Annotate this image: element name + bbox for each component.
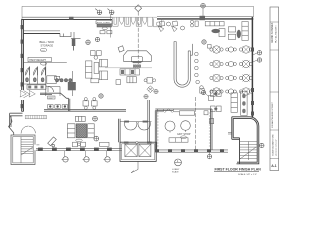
column on top wall [200,16,206,20]
long sofa top right [205,22,248,41]
section line south [195,97,197,150]
exterior wall right [251,17,254,118]
counter below wall [27,85,46,89]
south storefront wall left [36,148,122,151]
chamfer wall bottom-left [9,116,14,135]
svg-text:SCALE: 1/8" = 1'-0": SCALE: 1/8" = 1'-0" [238,173,257,176]
door triangle 2 [34,67,38,75]
finish tag 3 [104,151,111,162]
svg-text:SCALE: SCALE [172,170,179,173]
concierge label bubble [48,96,56,99]
title block vertical text [271,22,277,156]
vestibule wall west [119,119,121,143]
corridor wall at gift shop west [148,100,150,142]
row 4 [210,88,223,95]
gift shop south shelf [169,138,188,142]
door triangle 1 [26,67,30,75]
keynote top right of desk [93,116,98,121]
wc fixtures in stalls [26,78,29,82]
registration desk label bubble [76,139,83,142]
svg-text:A-1: A-1 [271,164,277,168]
lavatory circles [55,79,58,82]
grid bubble A [95,9,102,15]
writing desks pair [83,98,97,110]
doors into restroom corridor [20,90,35,97]
concierge desk row [48,105,68,109]
keynote south wall right [207,152,211,159]
title block [270,7,279,171]
service elevator shaft [120,142,156,162]
stair treads bottom right [240,142,258,161]
restroom walls [23,71,72,84]
svg-text:FIRST FLOOR FINISH PLAN: FIRST FLOOR FINISH PLAN [215,167,262,171]
plan callout bubble [172,159,181,174]
leader arrow below elevators [131,161,138,172]
canopy line top [22,6,254,19]
registration desk group [67,116,94,137]
stair door opening [34,145,40,151]
storage room top corridor wall [23,30,60,32]
top wall right section [157,16,253,20]
finish tag 2 [83,151,90,162]
grid bubble C [201,3,206,17]
bar counter J [174,42,192,88]
reception desk [118,46,151,68]
small service station [190,20,198,27]
sheet number [271,164,277,168]
svg-text:DESIGN GROUP: DESIGN GROUP [276,138,278,156]
storefront wall top-left [22,17,112,20]
svg-text:GRAND SCHEMES: GRAND SCHEMES [271,22,274,43]
piano [48,137,57,147]
elevator bank head line [112,16,157,18]
gift shop curtain wavy entry [158,109,180,113]
grid bubble B [108,9,115,15]
entry tile band [25,115,46,118]
gift shop display tables [165,121,175,131]
stairwell bottom-left [11,135,35,165]
svg-text:GIFT SHOP: GIFT SHOP [177,133,191,136]
elevator lobby label and desk [96,15,112,38]
dining tables grid [210,46,253,95]
left counter [67,124,75,138]
columns on right wall lower [251,101,254,116]
walls south lobby left [10,93,126,127]
row 2 [210,60,223,67]
keynote left of stair room [228,133,232,135]
vestibule north wall and door arcs [120,121,151,130]
room label BELL/SKID STORAGE [40,40,55,52]
keynote bottom right of desk [94,136,99,141]
pair chairs [228,27,235,32]
lobby seating group [86,51,108,83]
banquettes [231,93,237,112]
svg-text:HSKP RECEPT: HSKP RECEPT [29,59,46,62]
svg-text:100 ANYWHERE STREET: 100 ANYWHERE STREET [271,101,274,128]
vanity counter [47,76,56,84]
gift shop shelving ticks [157,113,211,146]
drawing title [214,167,261,176]
section diamond marker [135,5,142,67]
dark block service [68,82,76,90]
stall partitions [30,62,46,96]
storage room right wall block [72,39,76,47]
keynote near bar top [202,40,206,44]
curved stair room bottom right [232,117,259,164]
svg-text:COASTAL BARSTOW: COASTAL BARSTOW [271,133,274,156]
keynote at desks [99,94,103,98]
restroom partitions [23,62,75,96]
floor line lobby [105,67,152,69]
angled lounge chairs top [158,21,184,32]
door jamb right of gift shop [210,119,214,124]
south wall middle with windows [155,149,228,152]
small tables west of bar [144,78,158,99]
elevator bank doors [113,17,162,27]
center hatched desk [76,124,86,138]
entry door arcs at stair [21,126,36,134]
keynotes right wall [253,51,262,55]
console along wall [242,22,248,41]
square tables south dining [211,91,248,116]
casework below desk [73,142,110,147]
door swings at left wall entry [24,91,31,98]
plant [237,30,241,38]
row 3 [210,74,223,81]
row 1 [210,46,223,53]
gift shop counter [180,111,195,115]
exterior wall left [21,19,24,112]
door triangle 3 [41,67,45,75]
label box HOUSEKEEP RECEPTION [28,57,51,65]
svg-text:STORAGE: STORAGE [41,43,54,47]
gift shop label [177,133,191,139]
casework east of seating [116,69,139,85]
door arc bottom vestibule [48,87,54,93]
back sofa [75,116,85,121]
bar stools [195,52,205,93]
right counter [88,124,95,138]
gift shop walls [155,109,212,150]
oval coffee table [211,29,220,33]
keynote at stair room [260,143,264,147]
keynote south of bar [201,90,213,100]
keynote near elev lobby [95,37,99,41]
svg-text:HOTEL RESORT: HOTEL RESORT [275,25,277,43]
finish tag 1 [62,151,69,162]
